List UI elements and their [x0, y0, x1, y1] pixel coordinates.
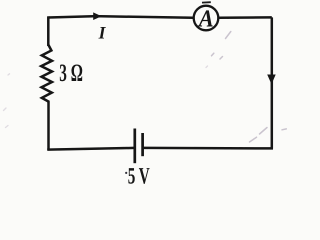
wire top (left corner to right corner)	[49, 16, 272, 17]
wire bottom left (battery left plate to corner)	[47, 148, 135, 150]
ammeter A (circle)	[194, 6, 219, 31]
current arrowhead on top wire (pointing right)	[93, 12, 101, 20]
arrowhead on right wire (pointing down)	[267, 75, 276, 85]
paper background	[0, 0, 312, 191]
svg-text:5 V: 5 V	[128, 163, 150, 189]
resistor R (zigzag)	[41, 45, 52, 102]
svg-text:I: I	[98, 22, 107, 42]
stray dot before 5	[125, 172, 127, 174]
battery left plate (long)	[133, 129, 136, 164]
battery right plate (short)	[141, 133, 144, 156]
svg-text:3 Ω: 3 Ω	[59, 60, 83, 87]
wire left upper (top corner down to resistor top)	[47, 16, 50, 46]
wire bottom right (corner to battery right plate)	[143, 147, 273, 150]
smudge marks (faint pencil scan artifacts)	[212, 32, 287, 143]
svg-text:A: A	[197, 6, 214, 33]
wire left lower (corner up to resistor bottom)	[47, 102, 50, 151]
wire right (top corner down to bottom corner)	[271, 17, 274, 148]
stray dash above ammeter	[202, 1, 211, 3]
